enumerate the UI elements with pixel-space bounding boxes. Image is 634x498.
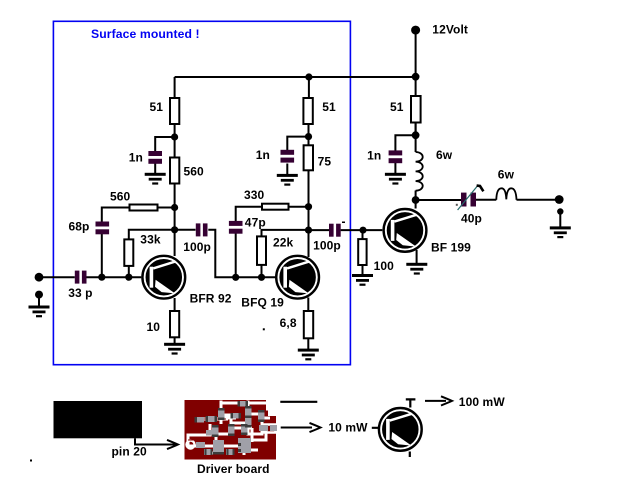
svg-text:Surface mounted !: Surface mounted ! bbox=[91, 27, 200, 41]
svg-text:68p: 68p bbox=[69, 220, 90, 234]
svg-text:33k: 33k bbox=[140, 233, 161, 247]
svg-text:6w: 6w bbox=[436, 148, 453, 162]
svg-text:560: 560 bbox=[110, 190, 131, 204]
svg-text:560: 560 bbox=[184, 165, 205, 179]
svg-text:10 mW: 10 mW bbox=[328, 421, 368, 435]
svg-text:6,8: 6,8 bbox=[280, 316, 297, 330]
svg-text:10: 10 bbox=[146, 320, 160, 334]
svg-text:pin 20: pin 20 bbox=[112, 444, 148, 458]
svg-text:BFQ 19: BFQ 19 bbox=[241, 295, 284, 309]
svg-text:22k: 22k bbox=[273, 236, 294, 250]
svg-text:75: 75 bbox=[318, 155, 332, 169]
svg-text:BFR 92: BFR 92 bbox=[190, 291, 232, 305]
svg-text:330: 330 bbox=[244, 188, 265, 202]
svg-text:100: 100 bbox=[374, 259, 395, 273]
svg-text:100p: 100p bbox=[313, 239, 341, 253]
svg-text:1n: 1n bbox=[129, 151, 143, 165]
svg-text:51: 51 bbox=[322, 100, 336, 114]
svg-text:33 p: 33 p bbox=[68, 286, 92, 300]
svg-text:6w: 6w bbox=[498, 168, 515, 182]
svg-text:12Volt: 12Volt bbox=[432, 23, 468, 37]
svg-text:51: 51 bbox=[390, 100, 404, 114]
svg-text:100 mW: 100 mW bbox=[459, 395, 506, 409]
svg-text:47p: 47p bbox=[245, 216, 266, 230]
svg-text:40p: 40p bbox=[461, 212, 482, 226]
svg-text:100p: 100p bbox=[183, 240, 211, 254]
svg-text:51: 51 bbox=[149, 100, 163, 114]
svg-text:1n: 1n bbox=[256, 148, 270, 162]
svg-text:1n: 1n bbox=[367, 149, 381, 163]
svg-text:BF 199: BF 199 bbox=[431, 241, 471, 255]
svg-text:Driver board: Driver board bbox=[197, 462, 270, 476]
